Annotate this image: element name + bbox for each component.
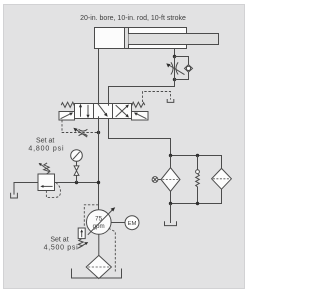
svg-text:4,500 psi: 4,500 psi	[44, 245, 79, 252]
valve V1 right solenoid	[132, 112, 149, 121]
wire isolator to gauge	[76, 161, 78, 166]
wire pump suction	[98, 234, 100, 255]
filter F1 diamond	[161, 168, 180, 192]
flow control FC1 adjustment arrow	[169, 65, 185, 75]
filter F1 clogging indicator	[152, 177, 158, 183]
gauge isolator valve	[74, 166, 79, 171]
valve V1 left spring	[61, 102, 74, 107]
relief valve RV1 spring	[44, 163, 50, 174]
wire rod-end return to valve B port	[109, 80, 175, 104]
suction filter F3 element (dashed)	[88, 266, 110, 268]
node gauge tee	[75, 181, 78, 184]
pressure gauge PG1	[71, 150, 83, 162]
node junction top of flow control	[173, 55, 176, 58]
directional valve V1 body	[75, 104, 132, 119]
main reservoir tank symbol	[72, 269, 122, 279]
wire cap-end A line	[98, 49, 100, 104]
svg-text:Set at: Set at	[36, 137, 54, 144]
relief tank symbol	[11, 193, 18, 198]
relief valve RV1 vent pilot (dashed)	[46, 183, 60, 197]
return tank symbol	[165, 221, 177, 225]
wire relief to tank	[14, 183, 38, 195]
node pilot tee on main line	[97, 131, 100, 134]
wire T line from valve to return rail	[109, 119, 171, 156]
svg-text:20-in. bore, 10-in. rod, 10-ft: 20-in. bore, 10-in. rod, 10-ft stroke	[80, 15, 186, 22]
suction filter F3 diamond	[86, 255, 111, 278]
compensator C1 internal arrow	[81, 231, 83, 237]
compensator C1 adjustment arrow	[78, 243, 86, 248]
drain pilot line (dashed) from right end cap	[143, 92, 171, 103]
compensator C1 body	[78, 228, 85, 239]
cylinder rod	[129, 34, 219, 45]
svg-text:EM: EM	[128, 221, 137, 227]
filter F1 indicator connector	[158, 179, 161, 181]
pump P1 circle	[87, 210, 112, 235]
filter F2 element (dashed)	[213, 178, 230, 180]
wire rod-end port line	[174, 49, 176, 57]
valve V1 right box crossed arrows	[116, 106, 128, 117]
cylinder barrel	[95, 28, 187, 49]
svg-text:Set at: Set at	[50, 236, 68, 243]
wire drop to return tank	[170, 204, 172, 224]
node rail middle junction	[196, 154, 199, 157]
wire pump to electric motor	[111, 222, 125, 224]
relief valve RV1 internal arrow	[43, 185, 53, 187]
wire return top rail	[171, 156, 222, 169]
valve V1 center box blocked stubs	[99, 104, 109, 119]
compensator C1 spring	[78, 239, 83, 248]
node junction bottom of flow control	[173, 78, 176, 81]
flow control FC1 throttle arcs	[171, 62, 178, 74]
valve V1 left box parallel arrows	[80, 106, 82, 117]
pilot orifice adjustment arrow	[76, 129, 88, 137]
pilot line (dashed) from left solenoid to main line	[62, 120, 98, 133]
pilot orifice throttle arcs	[79, 129, 88, 136]
wire return bottom rail	[171, 189, 222, 203]
valve V1 center box diagonal arrow	[98, 104, 106, 115]
wire filter F1 drop	[170, 156, 172, 168]
wire main pressure line valve P to pump	[98, 119, 100, 210]
electric motor EM	[125, 216, 139, 230]
check valve CV1 seat diamond	[185, 65, 193, 72]
pump case drain (dashed)	[109, 228, 116, 271]
valve V1 left solenoid	[59, 112, 75, 121]
cylinder piston	[125, 28, 129, 49]
wire check valve bypass branch	[175, 57, 189, 80]
wire gauge drop	[76, 176, 78, 183]
relief valve RV1 body	[38, 174, 55, 191]
filter F1 element (dashed)	[162, 179, 178, 181]
drain tank symbol	[167, 99, 174, 102]
wire through flow control	[174, 57, 176, 80]
filter F2 diamond	[212, 168, 232, 189]
svg-text:4,800 psi: 4,800 psi	[28, 146, 64, 153]
node bottom rail left junction	[169, 202, 172, 205]
compensator pilot line (dashed)	[84, 205, 98, 228]
gray field background	[4, 5, 245, 289]
relief valve RV1 adjustment arrow	[41, 164, 50, 171]
valve V1 right spring	[132, 102, 145, 107]
wire relief outlet to main line	[55, 182, 99, 184]
node bottom rail middle junction	[196, 202, 199, 205]
bypass check branch: ball and spring	[197, 156, 199, 171]
check valve CV1 ball	[186, 66, 190, 70]
node relief tee on main line	[97, 181, 100, 184]
node rail left junction	[169, 154, 172, 157]
pump P1 variable displacement arrow	[88, 210, 113, 235]
